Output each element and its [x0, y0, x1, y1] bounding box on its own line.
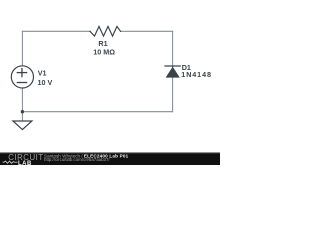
- svg-text:LAB: LAB: [18, 161, 32, 165]
- svg-text:http://circuitlab.com/c/e5a7aa: http://circuitlab.com/c/e5a7aab37/: [44, 157, 110, 162]
- svg-text:10 V: 10 V: [38, 78, 53, 87]
- svg-text:1N4148: 1N4148: [181, 70, 212, 79]
- svg-text:R1: R1: [98, 39, 107, 48]
- svg-text:V1: V1: [38, 69, 47, 78]
- svg-text:10 MΩ: 10 MΩ: [93, 48, 115, 57]
